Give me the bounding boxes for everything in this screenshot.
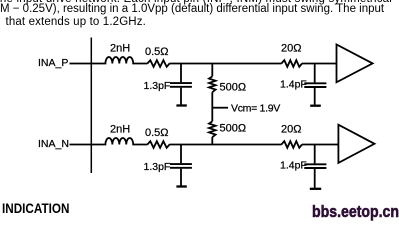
svg-text:500Ω: 500Ω bbox=[220, 82, 247, 94]
svg-text:INA_P: INA_P bbox=[38, 57, 68, 69]
svg-text:Vcm= 1.9V: Vcm= 1.9V bbox=[231, 103, 280, 115]
svg-text:1.3pF: 1.3pF bbox=[144, 80, 171, 92]
svg-text:2nH: 2nH bbox=[110, 43, 130, 55]
svg-text:0.5Ω: 0.5Ω bbox=[145, 127, 169, 139]
svg-text:20Ω: 20Ω bbox=[281, 43, 301, 55]
svg-text:2nH: 2nH bbox=[110, 124, 130, 136]
svg-text:INA_N: INA_N bbox=[38, 138, 69, 150]
svg-text:0.5Ω: 0.5Ω bbox=[145, 46, 169, 58]
svg-text:500Ω: 500Ω bbox=[220, 123, 247, 135]
svg-text:1.4pF: 1.4pF bbox=[280, 79, 307, 91]
svg-text:1.3pF: 1.3pF bbox=[144, 161, 171, 173]
svg-text:1.4pF: 1.4pF bbox=[280, 160, 307, 172]
svg-text:20Ω: 20Ω bbox=[281, 124, 301, 136]
